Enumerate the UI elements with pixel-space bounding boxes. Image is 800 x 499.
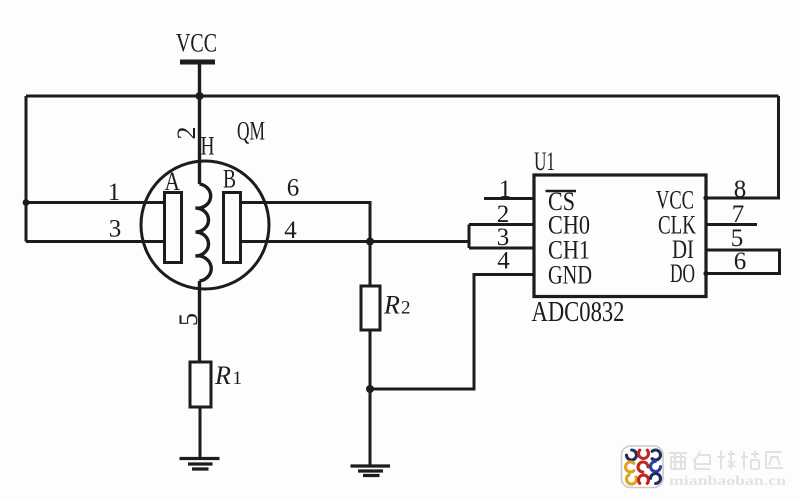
svg-text:GND: GND [548,261,592,290]
svg-text:R: R [214,361,231,390]
svg-text:B: B [223,165,236,194]
svg-text:1: 1 [499,176,512,203]
svg-text:DO: DO [670,259,695,288]
svg-text:R: R [383,291,400,320]
svg-text:VCC: VCC [176,29,217,58]
svg-text:A: A [165,167,181,196]
svg-text:2: 2 [401,298,411,319]
svg-text:1: 1 [233,368,243,389]
svg-text:7: 7 [732,201,745,228]
svg-text:1: 1 [108,179,121,206]
svg-text:6: 6 [734,248,747,275]
svg-text:3: 3 [109,216,122,243]
svg-text:QM: QM [237,117,265,146]
svg-text:U1: U1 [534,147,555,176]
svg-text:5: 5 [174,313,203,326]
svg-text:6: 6 [287,175,300,202]
svg-text:mianbaoban.cn: mianbaoban.cn [669,473,787,488]
svg-text:4: 4 [497,248,510,275]
svg-text:4: 4 [284,217,297,244]
svg-text:2: 2 [172,127,201,140]
svg-text:H: H [201,132,215,161]
svg-text:ADC0832: ADC0832 [532,296,625,328]
svg-text:8: 8 [734,176,747,203]
